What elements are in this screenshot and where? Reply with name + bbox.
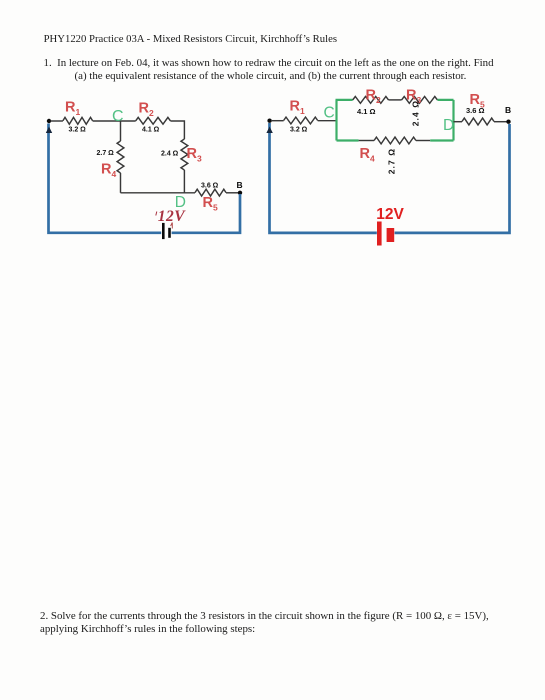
svg-text:C: C [324, 105, 335, 122]
resistor R2 (left, 4.1 ohm) [136, 117, 171, 124]
node A (left circuit) [47, 119, 51, 123]
wire [318, 120, 336, 122]
battery plate short (right, red) [387, 228, 395, 242]
green box top edge (right part) [437, 99, 453, 101]
green box top edge (left part) [336, 99, 353, 101]
svg-text:3.6 Ω: 3.6 Ω [201, 183, 219, 190]
resistor R5 (left, 3.6 ohm) [195, 189, 226, 196]
current arrow at A (right) [266, 127, 272, 134]
svg-text:R5: R5 [203, 195, 218, 213]
svg-text:12V: 12V [376, 206, 404, 223]
svg-text:4.1 Ω: 4.1 Ω [357, 107, 376, 116]
svg-text:R1: R1 [290, 98, 305, 116]
problem 1 line 1 [44, 57, 494, 69]
resistor R5 (right, 3.6 ohm) [462, 118, 494, 125]
svg-text:2.4 Ω: 2.4 Ω [161, 151, 179, 158]
title text [44, 33, 337, 45]
wire [120, 173, 122, 193]
tick mark before 12V [156, 212, 157, 216]
svg-text:B: B [505, 105, 511, 115]
svg-text:3.2 Ω: 3.2 Ω [69, 127, 87, 134]
problem 1 line 2 [75, 70, 467, 82]
svg-text:C: C [112, 108, 124, 125]
resistor R1 (right, 3.2 ohm) [284, 117, 318, 124]
wire [494, 121, 507, 123]
resistor R4 (right, 2.7 ohm) [374, 137, 416, 144]
wire [359, 140, 375, 142]
svg-text:12V: 12V [158, 208, 187, 225]
resistor R1 (left, 3.2 ohm) [63, 117, 93, 124]
wire [183, 170, 185, 193]
svg-text:4.1 Ω: 4.1 Ω [142, 126, 160, 133]
wire [93, 120, 136, 122]
wire [120, 121, 122, 141]
node B (right circuit) [506, 120, 510, 124]
battery plate short (left) [168, 228, 171, 238]
wire [389, 99, 402, 101]
svg-text:3.6 Ω: 3.6 Ω [466, 106, 485, 115]
svg-text:2.7 Ω: 2.7 Ω [97, 150, 115, 157]
node A (right circuit) [267, 119, 271, 123]
resistor R3 (right, 2.4 ohm) [402, 97, 438, 104]
resistor R3 (left, 2.4 ohm, vertical) [181, 139, 188, 170]
wire [51, 120, 63, 122]
svg-text:R1: R1 [65, 100, 80, 118]
wire [454, 121, 463, 123]
svg-text:R2: R2 [366, 88, 381, 106]
battery plate long (left) [162, 223, 165, 239]
wire [170, 121, 184, 139]
wire [226, 192, 238, 194]
resistor R2 (right, 4.1 ohm) [353, 97, 389, 104]
svg-text:R4: R4 [360, 146, 375, 164]
wire blue (left circuit, battery to B) [172, 194, 240, 233]
svg-text:R3: R3 [187, 146, 202, 164]
green box bottom edge (left part) [337, 139, 359, 141]
green box left edge [335, 100, 337, 141]
node B (left circuit) [238, 191, 242, 195]
wire blue (left circuit, A down and across) [49, 124, 162, 233]
wire bottom (left circuit) [121, 192, 196, 194]
problem 2 line 2 [40, 623, 255, 635]
small arrow below 12V [171, 223, 173, 229]
resistor R4 (left, 2.7 ohm, vertical) [117, 141, 124, 173]
svg-text:B: B [237, 180, 243, 190]
green box right edge [452, 100, 454, 141]
wire [416, 140, 430, 142]
green box bottom edge (right part) [430, 139, 453, 141]
wire blue (right circuit, A down and across) [270, 123, 377, 233]
problem 2 line 1 [40, 610, 489, 622]
current arrow at A (left) [46, 127, 52, 134]
svg-text:2.7 Ω: 2.7 Ω [387, 148, 397, 175]
svg-text:3.2 Ω: 3.2 Ω [290, 126, 308, 133]
svg-text:R2: R2 [139, 100, 154, 118]
battery plate long (right, red) [377, 222, 382, 246]
wire [271, 120, 284, 122]
svg-text:R4: R4 [101, 161, 116, 179]
wire blue (right circuit, battery to B) [395, 124, 510, 233]
svg-text:D: D [443, 117, 454, 134]
svg-text:2.4 Ω: 2.4 Ω [411, 100, 421, 127]
